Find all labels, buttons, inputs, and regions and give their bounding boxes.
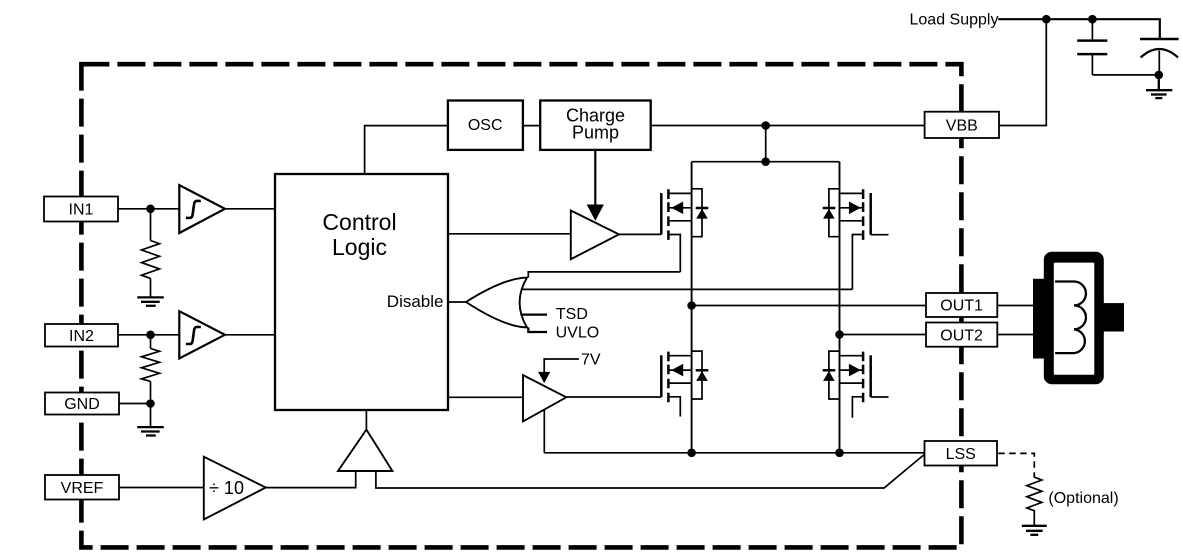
svg-text:Disable: Disable bbox=[387, 292, 444, 311]
svg-text:VBB: VBB bbox=[946, 118, 978, 135]
wire high-side right source sense (line B) bbox=[521, 288, 852, 290]
ground (supply caps) bbox=[1146, 75, 1172, 98]
resistor R-IN1 pulldown bbox=[142, 241, 160, 279]
node supply junction 1 bbox=[1042, 15, 1051, 24]
node IN2 pulldown junction bbox=[146, 331, 155, 340]
op-amp low-side gate driver bbox=[523, 375, 566, 421]
wire IN2 box to Schmitt buffer bbox=[118, 334, 179, 336]
wire GND node to ground bbox=[150, 404, 152, 428]
pin box IN2 bbox=[45, 324, 118, 347]
Schmitt trigger buffer (IN2) bbox=[179, 311, 225, 358]
node VBB rail junction bbox=[761, 121, 770, 130]
node bridge rail junction bbox=[761, 157, 770, 166]
wire divider output to comparator bbox=[266, 471, 356, 488]
svg-text:Logic: Logic bbox=[332, 234, 387, 260]
charge pump gate-drive arrow bbox=[594, 150, 596, 206]
svg-text:OSC: OSC bbox=[468, 117, 503, 134]
Schmitt trigger buffer (IN1) bbox=[179, 185, 225, 233]
Control Logic block U1 bbox=[275, 174, 448, 410]
svg-text:IN2: IN2 bbox=[69, 328, 94, 345]
svg-text:Control: Control bbox=[322, 209, 396, 235]
wire IN1 box to Schmitt buffer bbox=[118, 208, 179, 210]
wire resistor to GND node bbox=[150, 381, 152, 403]
wire resistor to ground bbox=[150, 278, 152, 297]
svg-text:GND: GND bbox=[64, 396, 100, 413]
wire OUT2 bbox=[840, 334, 927, 336]
ground (IN1 pulldown) bbox=[137, 297, 164, 305]
motor load winding bbox=[1033, 252, 1124, 384]
OR gate (fault disable) bbox=[466, 278, 527, 328]
wire driver to low-side gates bbox=[566, 396, 661, 398]
svg-text:LSS: LSS bbox=[946, 446, 976, 463]
svg-text:Load Supply: Load Supply bbox=[910, 11, 999, 28]
resistor R-sense (optional) bbox=[1027, 475, 1042, 526]
wire Control Logic to low-side gate driver bbox=[448, 396, 523, 398]
svg-text:VREF: VREF bbox=[61, 480, 104, 497]
wire OSC to Charge Pump bbox=[523, 125, 540, 127]
wire LSS to optional resistor (dashed) bbox=[998, 453, 1034, 475]
transistor Q4 low-side right bbox=[823, 335, 889, 453]
wire capacitor ground link bbox=[1092, 74, 1158, 76]
pin box VBB bbox=[925, 112, 999, 138]
pin box LSS bbox=[925, 441, 998, 466]
svg-text:÷ 10: ÷ 10 bbox=[209, 478, 244, 498]
wire driver return to LSS rail bbox=[543, 410, 545, 453]
IC boundary dashed border bbox=[81, 64, 961, 547]
op-amp high-side gate driver bbox=[571, 211, 619, 260]
wire OUT2 to load bbox=[997, 334, 1033, 336]
svg-text:OUT2: OUT2 bbox=[940, 327, 983, 344]
wire IN1 node down to resistor bbox=[150, 209, 152, 241]
wire VREF box to divider bbox=[119, 487, 204, 489]
wire rail down to bridge bbox=[765, 126, 767, 162]
OSC block bbox=[448, 101, 523, 150]
svg-text:OUT1: OUT1 bbox=[940, 298, 983, 315]
Charge Pump block bbox=[540, 101, 651, 150]
pin box GND bbox=[45, 393, 119, 415]
node GND junction bbox=[146, 399, 155, 408]
wire Schmitt IN1 to Control Logic bbox=[225, 208, 275, 210]
wire comparator to Control Logic bbox=[365, 410, 367, 430]
wire bridge top rail bbox=[692, 161, 840, 163]
wire VBB to supply bbox=[999, 19, 1046, 125]
node IN1 pulldown junction bbox=[146, 205, 155, 214]
wire TSD input stub bbox=[521, 314, 547, 316]
ground (GND pin) bbox=[137, 427, 164, 435]
transistor Q2 high-side right bbox=[823, 162, 889, 335]
svg-text:Pump: Pump bbox=[572, 123, 619, 143]
node LSS left junction bbox=[687, 449, 696, 458]
svg-text:UVLO: UVLO bbox=[556, 325, 600, 342]
wire 7V supply to driver bbox=[544, 359, 579, 373]
wire high-side left source sense (line A) bbox=[528, 272, 680, 278]
wire load supply rail bbox=[998, 19, 1160, 39]
wire Schmitt IN2 to Control Logic bbox=[225, 334, 275, 336]
pin box IN1 bbox=[44, 197, 118, 222]
op-amp current comparator bbox=[338, 430, 392, 471]
wire UVLO input stub bbox=[528, 327, 547, 332]
wire Control Logic to OSC bbox=[365, 126, 448, 174]
capacitor C2 (polarized) bbox=[1140, 39, 1179, 75]
wire OUT1 to load bbox=[997, 305, 1033, 307]
wire LSS rail bbox=[544, 452, 924, 454]
pin box OUT2 bbox=[926, 323, 997, 347]
pin box VREF bbox=[45, 475, 119, 500]
capacitor C1 bbox=[1077, 19, 1107, 75]
wire IN2 node down to resistor bbox=[150, 335, 152, 349]
wire Disable to OR gate bbox=[448, 301, 466, 303]
wire Control Logic to high-side gate driver bbox=[448, 233, 571, 235]
ground (optional resistor) bbox=[1022, 526, 1047, 535]
transistor Q3 low-side left bbox=[661, 306, 708, 453]
wire GND box to ground node bbox=[119, 403, 151, 405]
node OUT2 junction bbox=[835, 330, 844, 339]
node OUT1 junction bbox=[687, 301, 696, 310]
svg-text:IN1: IN1 bbox=[69, 202, 94, 219]
svg-text:7V: 7V bbox=[581, 351, 601, 368]
node LSS right junction bbox=[835, 449, 844, 458]
resistor R-IN2 pulldown bbox=[142, 349, 160, 382]
svg-text:TSD: TSD bbox=[556, 306, 588, 323]
transistor Q1 high-side left bbox=[661, 162, 708, 306]
node supply junction 2 bbox=[1088, 15, 1097, 24]
pin box OUT1 bbox=[926, 293, 997, 317]
wire driver to high-side gates bbox=[619, 233, 661, 235]
svg-text:(Optional): (Optional) bbox=[1048, 490, 1118, 507]
node capacitor ground junction bbox=[1155, 71, 1164, 80]
wire OUT1 bbox=[692, 305, 926, 307]
op-amp divide-by-10 bbox=[204, 457, 266, 520]
wire Charge Pump to VBB rail bbox=[651, 125, 925, 127]
wire LSS sense to comparator bbox=[376, 454, 925, 488]
